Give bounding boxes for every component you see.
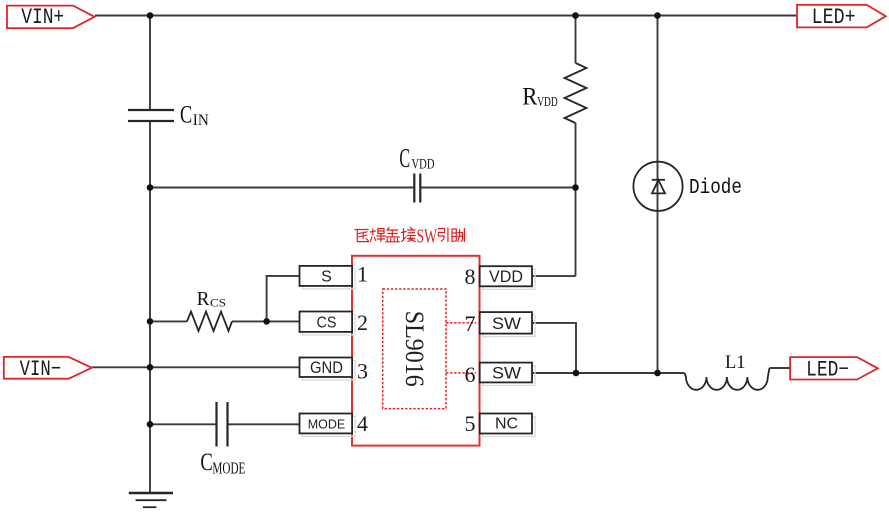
svg-text:CS: CS [317, 314, 337, 331]
svg-text:LED−: LED− [806, 357, 849, 382]
svg-text:C: C [200, 449, 212, 476]
svg-text:C: C [399, 143, 410, 173]
svg-text:SW: SW [417, 227, 438, 248]
svg-text:VIN+: VIN+ [21, 5, 64, 30]
svg-text:6: 6 [465, 362, 476, 387]
svg-text:7: 7 [465, 311, 476, 336]
svg-text:SL9016: SL9016 [400, 311, 429, 387]
svg-text:GND: GND [310, 359, 343, 377]
svg-text:MODE: MODE [212, 459, 245, 478]
svg-text:3: 3 [357, 359, 368, 384]
svg-text:1: 1 [357, 262, 368, 287]
svg-text:5: 5 [465, 411, 476, 436]
svg-text:VDD: VDD [412, 157, 435, 173]
svg-text:CS: CS [210, 295, 226, 309]
svg-text:LED+: LED+ [812, 5, 856, 30]
svg-text:SW: SW [492, 364, 521, 382]
svg-text:R: R [522, 83, 537, 110]
svg-text:S: S [321, 269, 332, 286]
svg-text:Diode: Diode [689, 177, 742, 200]
svg-text:IN: IN [193, 112, 209, 129]
svg-text:C: C [180, 101, 192, 128]
svg-text:2: 2 [357, 310, 368, 335]
svg-text:R: R [197, 288, 210, 310]
svg-text:SW: SW [492, 315, 521, 333]
svg-text:L1: L1 [725, 353, 746, 373]
svg-text:8: 8 [465, 264, 476, 289]
svg-text:NC: NC [495, 416, 518, 433]
svg-text:VIN−: VIN− [20, 357, 62, 382]
svg-text:MODE: MODE [308, 417, 346, 432]
svg-text:VDD: VDD [489, 267, 523, 286]
svg-text:VDD: VDD [537, 95, 558, 110]
svg-text:4: 4 [357, 411, 368, 436]
